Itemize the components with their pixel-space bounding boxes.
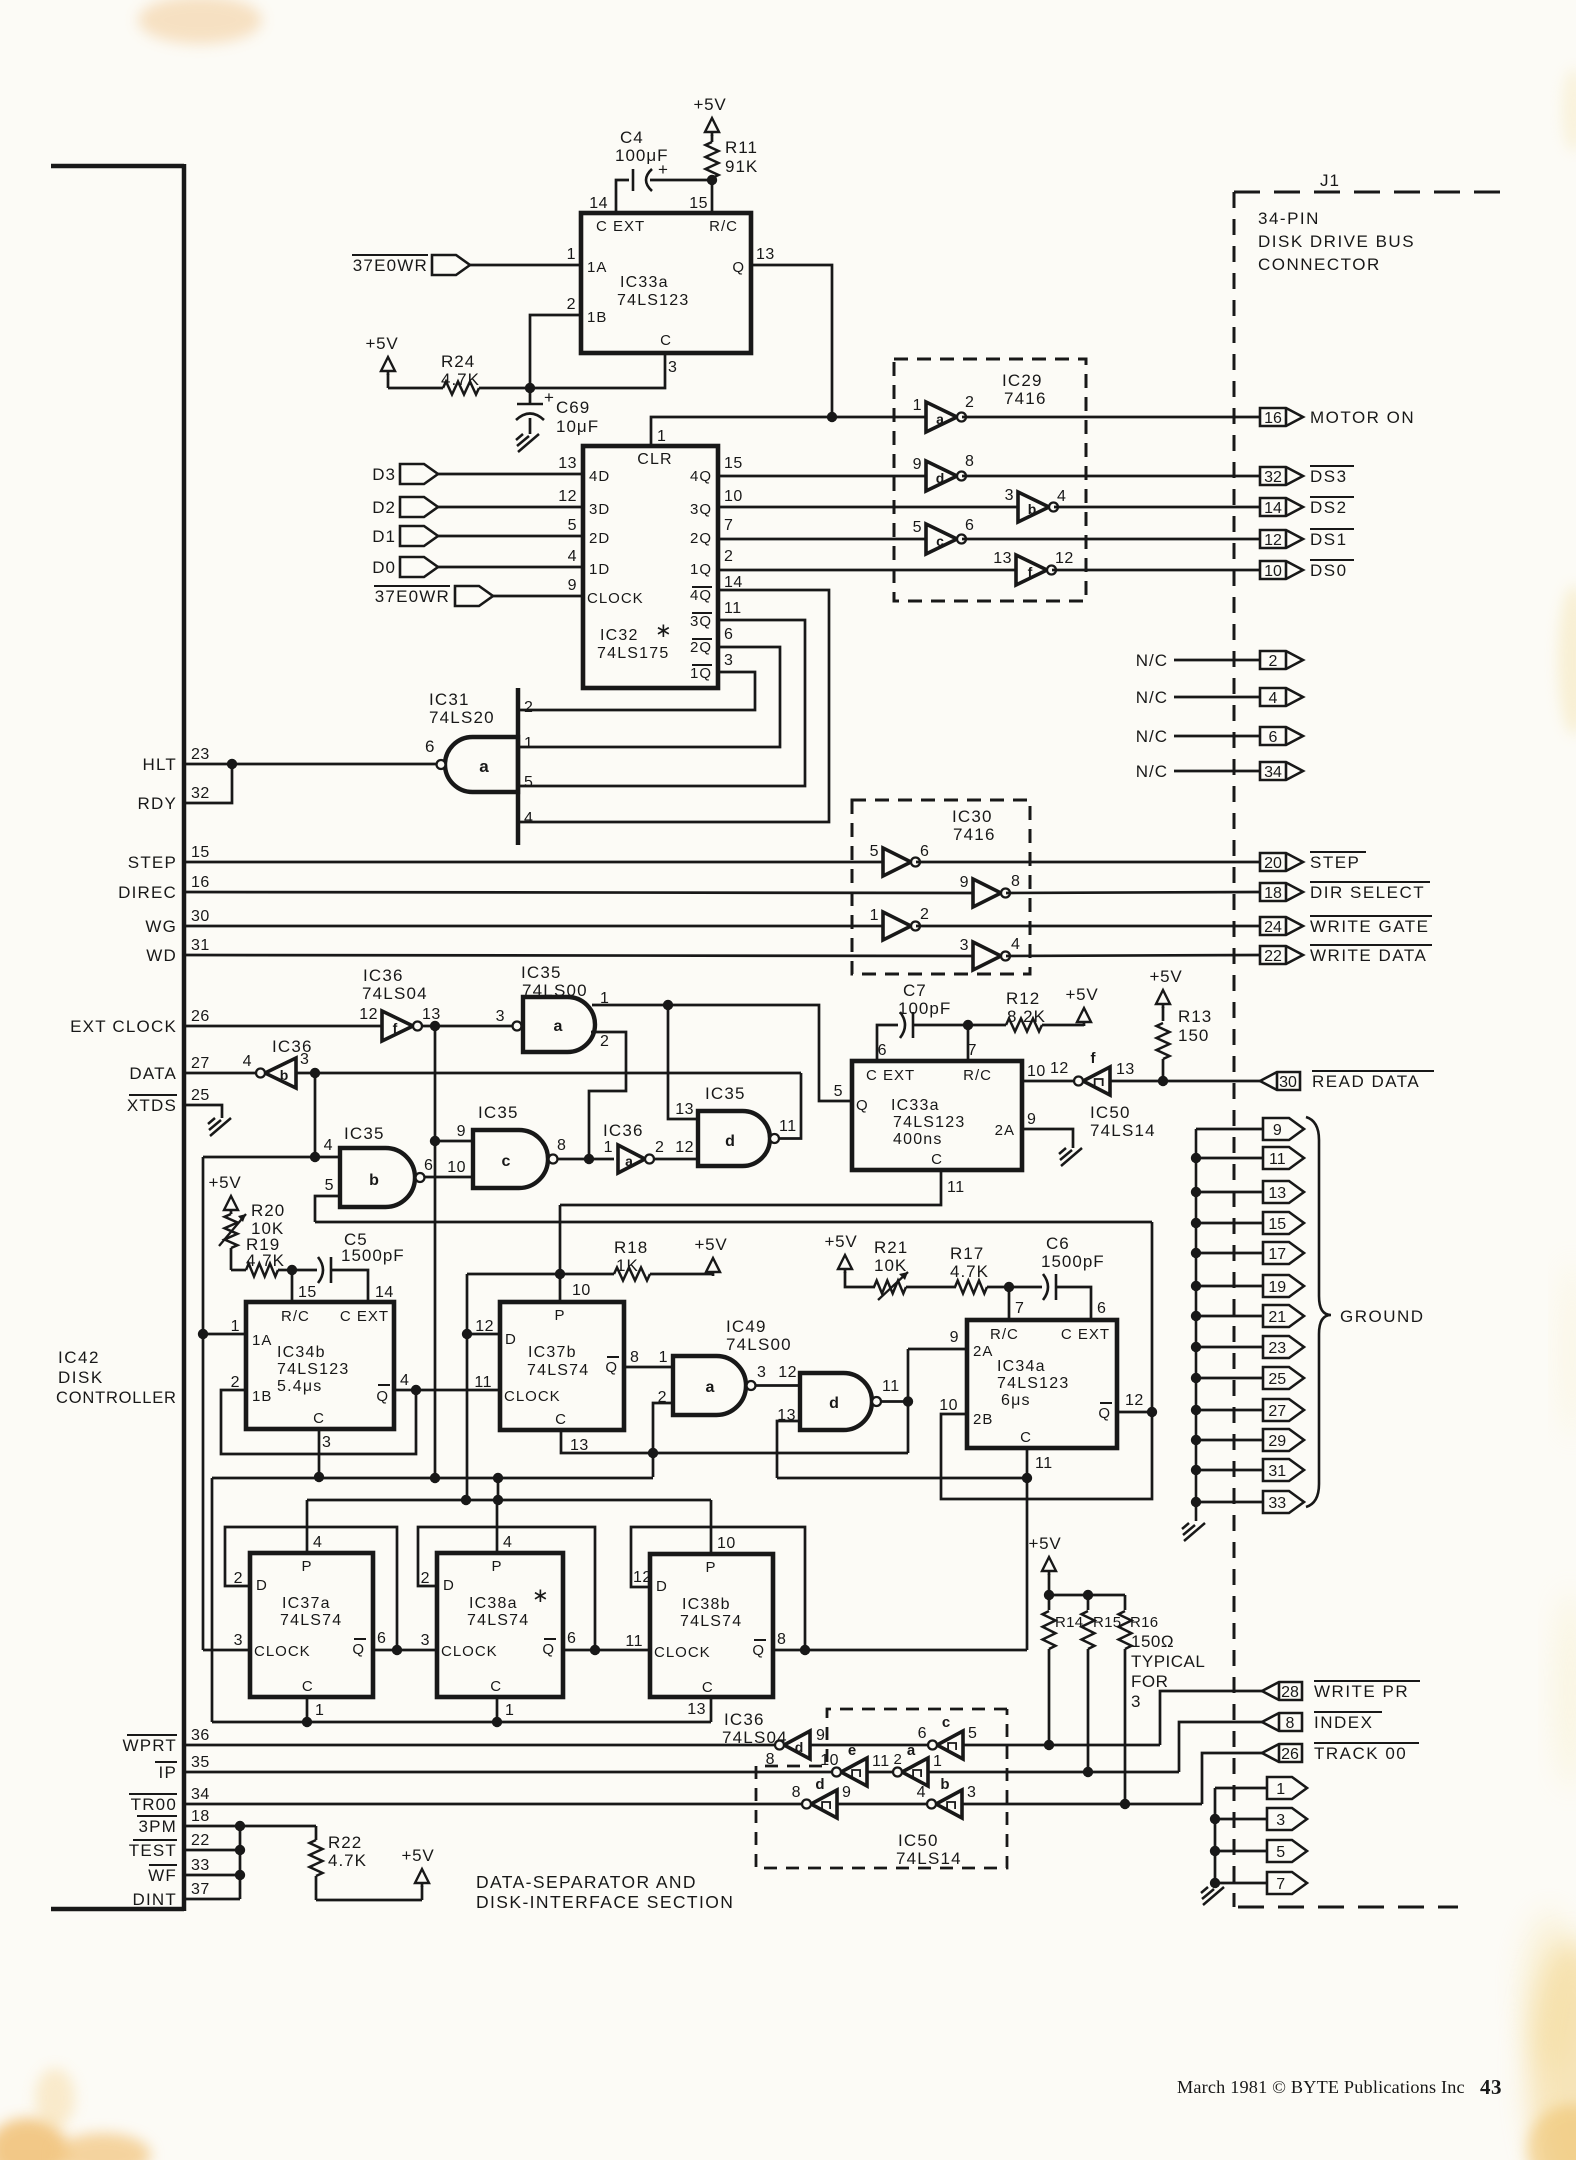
svg-text:26: 26 <box>191 1008 210 1025</box>
svg-text:1: 1 <box>231 1318 240 1335</box>
svg-text:11: 11 <box>947 1179 965 1196</box>
svg-text:100pF: 100pF <box>898 999 951 1018</box>
capacitor C69 10uF <box>529 388 532 404</box>
svg-text:13: 13 <box>993 550 1012 567</box>
inverter IC29b <box>1018 492 1049 522</box>
svg-text:6: 6 <box>920 843 929 860</box>
svg-text:34: 34 <box>1264 764 1282 781</box>
svg-text:2: 2 <box>965 394 974 411</box>
wire IC38a D-Qbar loop <box>418 1527 595 1650</box>
svg-text:1: 1 <box>933 1753 942 1770</box>
svg-text:28: 28 <box>1281 1684 1299 1701</box>
svg-text:22: 22 <box>1264 948 1282 965</box>
svg-text:35: 35 <box>191 1754 210 1771</box>
wire 1Q to IC29f <box>718 569 1016 572</box>
node ground pin 11 <box>1196 1157 1263 1160</box>
svg-text:4.7K: 4.7K <box>441 370 480 389</box>
wire 1B loop <box>530 315 581 388</box>
svg-text:R12: R12 <box>1006 989 1040 1008</box>
wire IC38b P pin <box>710 1500 713 1554</box>
wire to +5V <box>316 1899 422 1902</box>
svg-text:CONNECTOR: CONNECTOR <box>1258 255 1381 274</box>
wire to IC35d pin12 <box>654 1158 698 1161</box>
svg-text:15: 15 <box>191 844 210 861</box>
svg-text:74LS123: 74LS123 <box>617 292 689 309</box>
svg-text:d: d <box>829 1395 839 1412</box>
svg-text:1: 1 <box>524 735 533 752</box>
svg-text:12: 12 <box>475 1318 494 1335</box>
svg-text:3: 3 <box>757 1364 766 1381</box>
svg-text:C EXT: C EXT <box>866 1067 915 1084</box>
node J1 pin 18 DIR SELECT <box>1260 883 1303 901</box>
svg-text:3: 3 <box>1005 487 1014 504</box>
svg-text:5.4μs: 5.4μs <box>277 1378 322 1395</box>
svg-text:∗: ∗ <box>655 620 672 642</box>
junction node <box>663 1000 673 1010</box>
inverter IC50c schmitt <box>937 1731 963 1759</box>
wire IC38b Qbar out <box>773 1649 1027 1652</box>
svg-text:C: C <box>931 1151 943 1168</box>
svg-text:R15: R15 <box>1093 1614 1121 1631</box>
svg-text:XTDS: XTDS <box>127 1096 177 1115</box>
svg-text:4.7K: 4.7K <box>950 1262 989 1281</box>
inverter IC30 (wd) <box>973 942 1001 970</box>
svg-text:5: 5 <box>834 1083 843 1100</box>
+5V <box>1077 1008 1091 1022</box>
svg-text:FOR: FOR <box>1131 1672 1168 1691</box>
svg-text:1B: 1B <box>587 309 607 326</box>
junction node <box>310 1152 320 1162</box>
wire a out to d pin12 <box>756 1384 800 1387</box>
svg-text:29: 29 <box>1268 1433 1286 1450</box>
inverter IC50a schmitt <box>902 1758 928 1786</box>
wire left clock rail <box>202 1157 205 1650</box>
wire preset bus <box>307 1499 711 1502</box>
node J1 pin 24 WRITE GATE <box>1260 917 1303 935</box>
svg-text:WRITE PR: WRITE PR <box>1314 1682 1409 1701</box>
wire C bus H1722 <box>212 1721 711 1724</box>
svg-text:R13: R13 <box>1178 1007 1212 1026</box>
svg-text:e: e <box>848 1742 856 1759</box>
junction node <box>590 1645 600 1655</box>
svg-text:2: 2 <box>524 699 533 716</box>
inverter IC50e schmitt <box>841 1758 867 1786</box>
+5V / R21 pot <box>838 1255 852 1269</box>
svg-text:R21: R21 <box>874 1238 908 1257</box>
svg-text:N/C: N/C <box>1136 762 1168 781</box>
svg-text:IC31: IC31 <box>429 690 470 709</box>
svg-text:26: 26 <box>1281 1746 1299 1763</box>
svg-text:R18: R18 <box>614 1238 648 1257</box>
svg-text:CLOCK: CLOCK <box>504 1388 561 1405</box>
svg-text:C4: C4 <box>620 128 644 147</box>
wire long feedback line <box>315 1221 1152 1224</box>
svg-text:30: 30 <box>191 908 210 925</box>
node ground pin 23 <box>1196 1346 1263 1349</box>
svg-text:9: 9 <box>457 1123 466 1140</box>
svg-text:a: a <box>936 411 944 427</box>
node J1 pin 26 TRACK 00 <box>1202 1753 1262 1804</box>
node ground pin 33 <box>1196 1501 1263 1504</box>
svg-text:DISK-INTERFACE SECTION: DISK-INTERFACE SECTION <box>476 1892 734 1912</box>
svg-text:2Q: 2Q <box>690 639 712 656</box>
node J1 pin 8 INDEX <box>1179 1722 1262 1772</box>
svg-text:D2: D2 <box>372 498 396 517</box>
svg-text:12: 12 <box>1050 1060 1069 1077</box>
node ground pin 27 <box>1196 1409 1263 1412</box>
svg-text:18: 18 <box>1264 885 1282 902</box>
svg-text:7: 7 <box>1015 1300 1024 1317</box>
svg-text:3Q: 3Q <box>690 613 712 630</box>
inverter IC30 (direc) <box>973 879 1001 907</box>
svg-text:3: 3 <box>1131 1692 1141 1711</box>
svg-text:March 1981 © BYTE Publications: March 1981 © BYTE Publications Inc <box>1177 2077 1465 2097</box>
svg-text:10K: 10K <box>874 1256 907 1275</box>
svg-text:D: D <box>443 1577 455 1594</box>
svg-text:C EXT: C EXT <box>596 218 645 235</box>
junction node <box>707 175 717 185</box>
junction node <box>525 383 535 393</box>
svg-text:3: 3 <box>960 937 969 954</box>
capacitor C5 1500pF <box>292 1269 317 1272</box>
ground <box>1184 1523 1205 1541</box>
wire C pin to node <box>530 353 665 388</box>
svg-text:9: 9 <box>1273 1122 1282 1139</box>
node J1 pin 7 <box>1215 1882 1267 1885</box>
svg-text:7416: 7416 <box>953 825 996 844</box>
svg-text:23: 23 <box>1268 1340 1286 1357</box>
svg-text:12: 12 <box>558 488 577 505</box>
svg-text:4Q: 4Q <box>690 468 712 485</box>
capacitor C7 100pF <box>900 1012 905 1038</box>
svg-text:+5V: +5V <box>824 1232 857 1251</box>
svg-text:IC35: IC35 <box>705 1084 746 1103</box>
svg-text:N/C: N/C <box>1136 727 1168 746</box>
svg-text:N/C: N/C <box>1136 688 1168 707</box>
wire to IC35d pin13 <box>668 1005 698 1119</box>
svg-text:DATA: DATA <box>129 1064 177 1083</box>
svg-text:18: 18 <box>191 1808 210 1825</box>
svg-text:b: b <box>280 1067 289 1083</box>
svg-text:20: 20 <box>1264 855 1282 872</box>
svg-text:a: a <box>479 757 489 776</box>
capacitor C4 100uF <box>632 169 635 191</box>
svg-text:CLOCK: CLOCK <box>441 1643 498 1660</box>
junction node <box>1004 1282 1014 1292</box>
+5V for R24 <box>381 357 395 371</box>
svg-text:4: 4 <box>1269 690 1278 707</box>
svg-text:21: 21 <box>1268 1309 1286 1326</box>
svg-text:a: a <box>554 1018 563 1035</box>
junction node <box>1147 1407 1157 1417</box>
node J1 pin 20 STEP <box>1260 853 1303 871</box>
svg-text:4.7K: 4.7K <box>246 1251 285 1270</box>
svg-text:IC42: IC42 <box>58 1348 100 1367</box>
svg-text:C: C <box>702 1679 714 1696</box>
svg-text:3: 3 <box>322 1434 331 1451</box>
wire to index connector <box>928 1771 1179 1774</box>
wire HLT to gate output <box>184 763 436 766</box>
resistor R15 <box>1087 1595 1090 1610</box>
svg-text:+5V: +5V <box>1028 1534 1061 1553</box>
svg-text:a: a <box>907 1742 916 1759</box>
wire IC38b C pin <box>710 1697 713 1722</box>
wire DATA <box>184 1072 256 1075</box>
svg-text:IC29: IC29 <box>1002 371 1043 390</box>
wire rail <box>1214 1788 1217 1883</box>
svg-text:5: 5 <box>524 774 533 791</box>
svg-text:10: 10 <box>724 488 743 505</box>
svg-text:3Q: 3Q <box>690 501 712 518</box>
wire EXT CLOCK <box>184 1025 382 1028</box>
resistor R14 <box>1048 1595 1051 1610</box>
svg-text:C EXT: C EXT <box>340 1308 389 1325</box>
wire WPRT <box>184 1744 775 1747</box>
svg-text:WRITE GATE: WRITE GATE <box>1310 917 1430 936</box>
svg-text:R24: R24 <box>441 352 475 371</box>
wire C4 to R11 node <box>650 179 712 182</box>
wire 1B-Qbar feedback loop <box>221 1390 416 1454</box>
svg-text:c: c <box>942 1714 950 1731</box>
inverter IC50b schmitt <box>936 1790 962 1818</box>
svg-text:37E0WR: 37E0WR <box>353 256 428 275</box>
op IC33a 74LS123 one-shot (top) <box>581 213 751 353</box>
svg-text:16: 16 <box>1264 410 1282 427</box>
svg-text:WD: WD <box>146 946 177 965</box>
svg-text:1: 1 <box>913 397 922 414</box>
svg-text:6: 6 <box>377 1630 386 1647</box>
wire pin7 <box>967 1025 970 1061</box>
wire pin9 <box>435 1140 473 1143</box>
svg-text:1: 1 <box>604 1139 613 1156</box>
svg-text:13: 13 <box>756 246 775 263</box>
junction node <box>1022 1473 1032 1483</box>
svg-text:15: 15 <box>298 1284 317 1301</box>
svg-text:9: 9 <box>913 456 922 473</box>
svg-text:1B: 1B <box>252 1388 272 1405</box>
svg-text:D: D <box>656 1578 668 1595</box>
svg-text:C EXT: C EXT <box>1061 1326 1110 1343</box>
wire Qbar up to gate b pin5 line <box>1151 1222 1154 1412</box>
svg-text:+5V: +5V <box>694 1235 727 1254</box>
svg-text:2: 2 <box>1269 653 1278 670</box>
+5V / R20 pot <box>224 1196 238 1210</box>
svg-text:74LS00: 74LS00 <box>726 1335 792 1354</box>
svg-text:12: 12 <box>359 1006 378 1023</box>
svg-text:DATA-SEPARATOR AND: DATA-SEPARATOR AND <box>476 1872 697 1892</box>
inverter IC50f schmitt <box>1083 1067 1110 1095</box>
svg-text:12: 12 <box>1055 550 1074 567</box>
inverter IC30 (wg) <box>883 912 911 940</box>
svg-text:P: P <box>705 1559 716 1576</box>
wire 2A pin9 to ground <box>1022 1129 1073 1148</box>
svg-text:IC38a: IC38a <box>469 1595 518 1612</box>
svg-text:100μF: 100μF <box>615 146 669 165</box>
svg-text:C: C <box>302 1678 314 1695</box>
svg-text:d: d <box>795 1739 804 1755</box>
wire 2Q to IC29c <box>718 538 926 541</box>
svg-text:IC36: IC36 <box>603 1121 644 1140</box>
node ground pin 29 <box>1196 1439 1263 1442</box>
svg-text:IC33a: IC33a <box>620 274 669 291</box>
svg-text:DIREC: DIREC <box>118 883 177 902</box>
op IC33a 400ns <box>852 1061 1022 1170</box>
svg-text:C7: C7 <box>903 981 927 1000</box>
junction node <box>555 1269 565 1279</box>
svg-text:4Q: 4Q <box>690 587 712 604</box>
svg-text:D: D <box>505 1331 517 1348</box>
svg-text:1: 1 <box>657 428 666 445</box>
svg-text:R/C: R/C <box>990 1326 1019 1343</box>
junction node <box>1120 1799 1130 1809</box>
svg-text:IC32: IC32 <box>600 627 639 644</box>
svg-text:74LS123: 74LS123 <box>997 1375 1069 1392</box>
svg-text:6: 6 <box>424 1157 433 1174</box>
svg-text:9: 9 <box>816 1727 825 1744</box>
svg-text:37E0WR: 37E0WR <box>375 587 450 606</box>
resistor R12 8.2K <box>1006 1019 1042 1032</box>
svg-text:5: 5 <box>968 1725 977 1742</box>
op IC32 74LS175 quad flip-flop <box>583 446 718 688</box>
wire to track00 connector <box>962 1803 1202 1806</box>
svg-text:5: 5 <box>913 519 922 536</box>
wire WG <box>184 925 883 928</box>
svg-text:Q: Q <box>352 1641 365 1658</box>
svg-text:31: 31 <box>1268 1463 1286 1480</box>
wire to write-protect connector <box>963 1744 1160 1747</box>
svg-text:b: b <box>1028 501 1037 517</box>
wire pin10 <box>425 1176 473 1179</box>
svg-text:R/C: R/C <box>963 1067 992 1084</box>
+5V <box>415 1869 429 1883</box>
svg-text:CLR: CLR <box>637 451 673 468</box>
junction node <box>430 1021 440 1031</box>
svg-text:31: 31 <box>191 937 210 954</box>
svg-text:+: + <box>544 388 554 407</box>
wire D net down <box>466 1334 469 1500</box>
wire STEP <box>184 861 883 864</box>
wire RDY joins HLT <box>184 764 232 803</box>
svg-text:11: 11 <box>625 1633 643 1650</box>
svg-text:d: d <box>815 1776 824 1793</box>
node ground pin 13 <box>1196 1191 1263 1194</box>
svg-text:33: 33 <box>1268 1495 1286 1512</box>
svg-text:R14: R14 <box>1055 1614 1083 1631</box>
svg-text:4: 4 <box>400 1372 409 1389</box>
svg-text:INDEX: INDEX <box>1314 1713 1373 1732</box>
wire left rail <box>211 1478 214 1722</box>
node ground pin 25 <box>1196 1377 1263 1380</box>
wire clear bus H1478 <box>212 1477 653 1480</box>
IC42 disk controller bus (left edge) <box>51 164 184 169</box>
svg-text:17: 17 <box>1268 1246 1286 1263</box>
svg-text:8: 8 <box>557 1137 566 1154</box>
svg-text:IC33a: IC33a <box>891 1097 940 1114</box>
node J1 pin 10 DS0 <box>1260 561 1303 579</box>
wire read data <box>1110 1080 1260 1083</box>
svg-text:74LS74: 74LS74 <box>467 1612 529 1629</box>
inverter IC36d (points left) <box>784 1731 810 1759</box>
svg-text:2D: 2D <box>589 530 610 547</box>
svg-text:10: 10 <box>1027 1063 1046 1080</box>
svg-text:IC36: IC36 <box>363 966 404 985</box>
wire DIREC <box>184 892 973 893</box>
svg-text:f: f <box>1028 564 1033 580</box>
wire 2B pin10 loop <box>941 1412 1152 1499</box>
svg-text:R17: R17 <box>950 1244 984 1263</box>
svg-text:Q: Q <box>542 1641 555 1658</box>
wire XTDS to ground <box>184 1105 222 1118</box>
svg-text:1500pF: 1500pF <box>1041 1252 1105 1271</box>
svg-text:11: 11 <box>779 1118 797 1135</box>
svg-text:4: 4 <box>1057 488 1066 505</box>
svg-text:R11: R11 <box>725 138 758 157</box>
svg-text:3: 3 <box>421 1632 430 1649</box>
svg-text:2A: 2A <box>995 1122 1015 1139</box>
svg-text:5: 5 <box>568 517 577 534</box>
wire down to gate b pin4 <box>314 1073 317 1157</box>
svg-text:3: 3 <box>724 652 733 669</box>
svg-text:C: C <box>1020 1429 1032 1446</box>
wire pin3 C down <box>318 1429 321 1477</box>
svg-text:Q: Q <box>752 1642 765 1659</box>
node J1 pin 3 <box>1215 1818 1267 1821</box>
svg-text:3PM: 3PM <box>138 1817 177 1836</box>
svg-text:CONTROLLER: CONTROLLER <box>56 1389 177 1407</box>
wire pin 1A <box>203 1333 246 1336</box>
wire IC37a P pin <box>306 1500 309 1553</box>
svg-text:5: 5 <box>1276 1844 1285 1861</box>
wire 3PM/TEST/WF/DINT tie rail <box>184 1825 316 1828</box>
svg-text:10: 10 <box>820 1752 839 1769</box>
wire motor on <box>962 416 1260 419</box>
node J1 pin 1 <box>1215 1787 1267 1790</box>
svg-text:WRITE DATA: WRITE DATA <box>1310 946 1427 965</box>
wire pin6 <box>877 1025 898 1061</box>
svg-text:CLOCK: CLOCK <box>654 1644 711 1661</box>
svg-text:C: C <box>313 1410 325 1427</box>
+5V supply <box>705 118 719 132</box>
svg-text:14: 14 <box>589 195 608 212</box>
svg-text:11: 11 <box>1269 1151 1286 1168</box>
svg-text:10: 10 <box>572 1282 591 1299</box>
svg-text:7: 7 <box>724 517 733 534</box>
node J1 pin 14 DS2 <box>1260 498 1303 516</box>
svg-text:150: 150 <box>1178 1026 1209 1045</box>
svg-text:J1: J1 <box>1320 171 1340 190</box>
capacitor C6 1500pF <box>1009 1286 1042 1289</box>
svg-text:1Q: 1Q <box>690 561 712 578</box>
svg-text:8: 8 <box>792 1784 801 1801</box>
svg-text:GROUND: GROUND <box>1340 1307 1425 1326</box>
op IC38b 74LS74 <box>650 1554 773 1697</box>
svg-text:DS0: DS0 <box>1310 561 1348 580</box>
svg-text:4: 4 <box>524 810 533 827</box>
svg-text:74LS175: 74LS175 <box>597 645 669 662</box>
svg-text:4: 4 <box>917 1784 926 1801</box>
svg-text:74LS74: 74LS74 <box>280 1612 342 1629</box>
svg-text:24: 24 <box>1264 919 1282 936</box>
svg-text:DINT: DINT <box>133 1890 177 1909</box>
svg-text:12: 12 <box>778 1364 797 1381</box>
svg-text:10: 10 <box>939 1397 958 1414</box>
svg-text:TYPICAL: TYPICAL <box>1131 1652 1205 1671</box>
svg-text:11: 11 <box>724 600 742 617</box>
wire D pin12 <box>467 1333 500 1336</box>
wire Q out pin10 <box>1022 1080 1076 1083</box>
svg-text:DISK DRIVE BUS: DISK DRIVE BUS <box>1258 232 1415 251</box>
svg-text:D: D <box>256 1577 268 1594</box>
